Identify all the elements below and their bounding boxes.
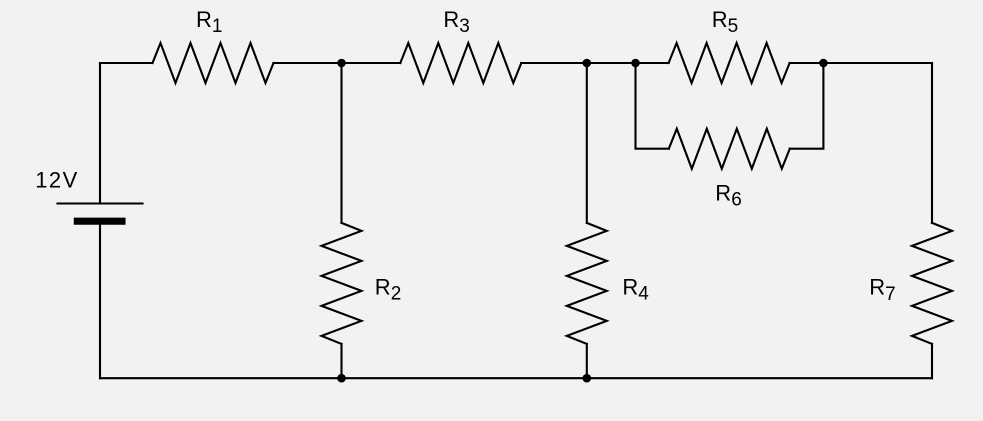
wire R5 to right corner [790, 62, 932, 64]
resistor R1 [153, 43, 274, 83]
resistor R5 [669, 43, 790, 83]
wire R3 to R5 (node B) [521, 62, 668, 64]
wire battery top lead [99, 63, 101, 204]
svg-text:R2: R2 [375, 274, 401, 304]
svg-text:R3: R3 [443, 7, 469, 37]
resistor R2 [322, 223, 362, 344]
node junction dot R2 bottom [337, 374, 346, 383]
svg-text:R5: R5 [712, 7, 738, 37]
resistor R6 [669, 129, 790, 169]
wire R4 bottom lead [586, 344, 588, 378]
resistor R3 [400, 43, 521, 83]
svg-text:R7: R7 [869, 275, 895, 305]
resistor R4 [567, 223, 607, 344]
wire top left (battery to R1) [100, 62, 153, 64]
node junction dot R4 bottom [583, 374, 592, 383]
wire bottom rail [100, 377, 932, 379]
node junction dot R5-R6 merge [819, 59, 828, 68]
node junction dot R1-R2-R3 [337, 59, 346, 68]
svg-text:R4: R4 [622, 274, 649, 304]
wire R2 top branch [340, 63, 342, 223]
wire R4 top branch [586, 63, 588, 223]
resistor R7 [912, 223, 952, 344]
node junction dot R5-R6 split [631, 59, 640, 68]
wire right vertical to R7 [931, 63, 933, 223]
svg-text:R1: R1 [196, 7, 222, 37]
wire battery bottom lead [99, 225, 101, 378]
battery B1 negative plate [77, 218, 122, 225]
wire R6 right branch up [790, 63, 824, 149]
svg-text:12V: 12V [35, 168, 79, 193]
wire R6 left branch down [636, 63, 669, 149]
wire R2 bottom lead [340, 344, 342, 378]
battery B1 positive plate [58, 202, 143, 204]
wire R1 to R3 (node A) [274, 62, 401, 64]
node junction dot R3-R4 [583, 59, 592, 68]
svg-text:R6: R6 [715, 180, 741, 210]
wire R7 bottom lead [931, 344, 933, 378]
